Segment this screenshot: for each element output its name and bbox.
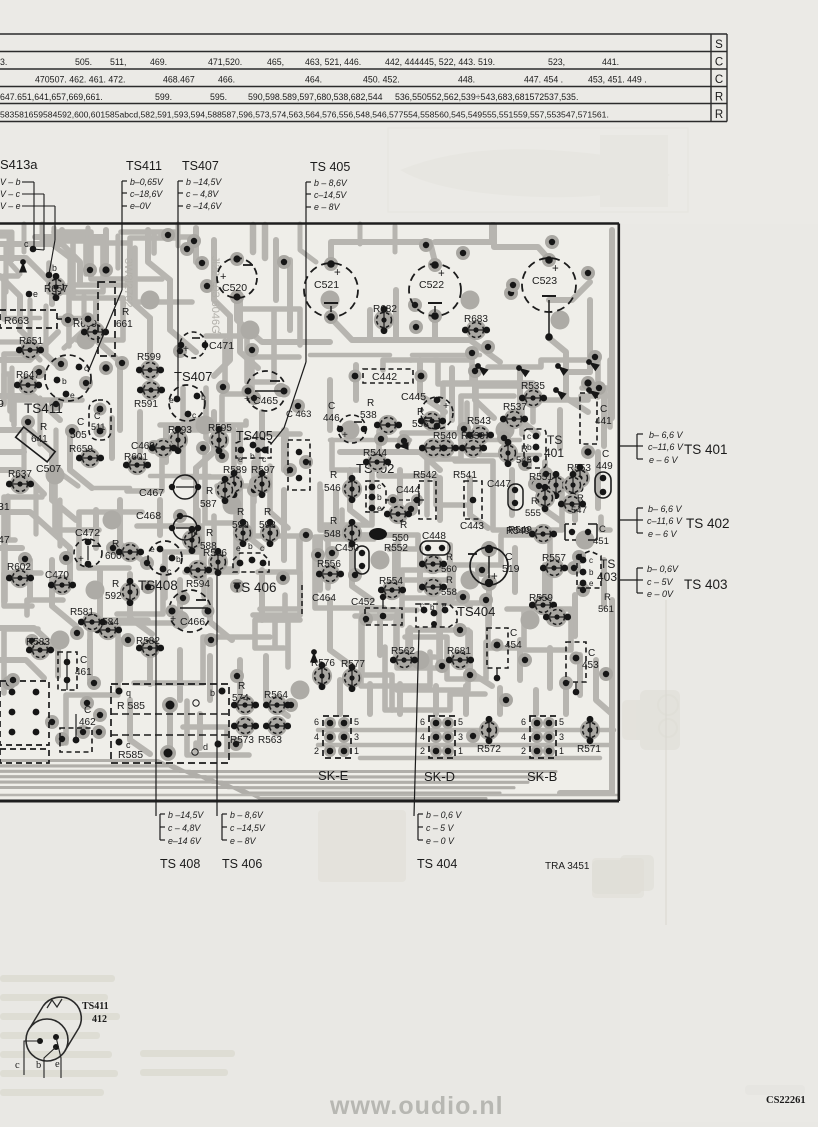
svg-text:2: 2 — [314, 746, 319, 756]
resistor R549 trim — [508, 524, 557, 544]
transistor TS404 body — [416, 601, 457, 627]
svg-text:e: e — [377, 503, 382, 513]
svg-text:546: 546 — [324, 483, 341, 494]
svg-text:R582: R582 — [136, 636, 160, 647]
svg-text:+: + — [342, 430, 348, 441]
svg-text:R562: R562 — [391, 646, 415, 657]
svg-text:TS407: TS407 — [182, 159, 219, 173]
svg-text:6: 6 — [314, 717, 319, 727]
resistor R584 — [94, 617, 122, 640]
svg-text:C: C — [715, 57, 723, 69]
svg-text:b: b — [52, 263, 57, 273]
svg-text:451: 451 — [593, 536, 609, 547]
svg-text:548: 548 — [324, 529, 341, 540]
svg-text:e: e — [55, 1059, 60, 1070]
resistor R600 body — [116, 542, 144, 562]
svg-text:R: R — [122, 307, 129, 318]
svg-text:1: 1 — [354, 746, 359, 756]
svg-text:536: 536 — [412, 419, 429, 430]
svg-text:e – 8V: e – 8V — [230, 836, 257, 846]
transistor TS405 body — [236, 438, 271, 464]
svg-text:R602: R602 — [7, 562, 31, 573]
svg-text:R599: R599 — [137, 352, 161, 363]
svg-text:b: b — [176, 554, 181, 564]
svg-text:536,550552,562,539÷543,683,681: 536,550552,562,539÷543,683,681572537,535… — [395, 92, 578, 102]
svg-text:c – 5 V: c – 5 V — [426, 823, 455, 833]
svg-text:b – 8,6V: b – 8,6V — [230, 810, 264, 820]
svg-text:+: + — [78, 554, 84, 565]
svg-text:C: C — [588, 648, 595, 659]
transistor TS411 callout wire — [88, 206, 122, 372]
capacitor C446 label and body — [323, 401, 367, 443]
svg-text:e: e — [169, 395, 174, 405]
svg-text:+: + — [334, 267, 341, 279]
potentiometer R585 box — [111, 684, 229, 763]
svg-text:b: b — [377, 492, 382, 502]
resistor R551 b — [563, 471, 583, 499]
svg-text:442, 444445, 522, 443. 519.: 442, 444445, 522, 443. 519. — [385, 57, 495, 67]
svg-text:C470: C470 — [45, 570, 69, 581]
capacitor C453 body and label — [566, 642, 599, 695]
svg-text:e: e — [70, 390, 75, 400]
pcb outline border right — [617, 224, 620, 802]
svg-text:R551: R551 — [529, 472, 553, 483]
resistor R601 — [123, 452, 151, 475]
svg-text:+: + — [438, 268, 445, 280]
resistor R582 — [136, 636, 164, 658]
svg-text:454: 454 — [505, 640, 522, 651]
svg-text:R583: R583 — [26, 637, 50, 648]
svg-text:+: + — [491, 571, 498, 583]
svg-text:465,: 465, — [267, 57, 284, 67]
svg-text:545: 545 — [516, 455, 532, 466]
svg-text:R: R — [577, 493, 584, 504]
capacitor C468 label and body — [136, 510, 201, 540]
transistor TS402 body — [366, 481, 386, 513]
svg-text:e–14 6V: e–14 6V — [168, 836, 202, 846]
svg-text:TS404: TS404 — [457, 604, 495, 619]
capacitor C469 body — [131, 438, 177, 458]
svg-text:3: 3 — [559, 732, 564, 742]
capacitor C447 label and body — [487, 479, 523, 510]
svg-text:R571: R571 — [577, 744, 601, 755]
capacitor C448 label and body — [420, 531, 450, 555]
svg-text:C: C — [328, 401, 335, 412]
svg-text:b– 0,6V: b– 0,6V — [647, 564, 679, 574]
connector SK-E body — [314, 716, 359, 758]
resistor R557 — [540, 553, 568, 578]
svg-text:468.467: 468.467 — [163, 75, 195, 85]
svg-text:SK-D: SK-D — [424, 769, 455, 784]
resistor R588 body — [182, 526, 202, 554]
svg-text:C467: C467 — [139, 487, 164, 499]
capacitor C444 label and body — [385, 485, 425, 506]
svg-text:448.: 448. — [458, 75, 475, 85]
svg-text:R: R — [417, 407, 424, 418]
svg-text:598: 598 — [259, 520, 276, 531]
table row C capacitors 2 — [35, 75, 647, 85]
svg-text:b: b — [248, 541, 253, 551]
transistor TS407 body — [169, 385, 206, 421]
svg-text:453, 451. 449 .: 453, 451. 449 . — [588, 75, 647, 85]
svg-text:9: 9 — [0, 398, 4, 410]
svg-text:C: C — [600, 404, 607, 415]
resistor R576 — [311, 658, 335, 690]
resistor R587 body — [215, 476, 235, 504]
svg-text:TS 401: TS 401 — [684, 442, 728, 457]
resistor R581 — [70, 607, 106, 632]
resistor R564 — [263, 690, 291, 715]
transistor TS401 callout — [620, 430, 684, 465]
svg-text:TS413a: TS413a — [0, 157, 38, 172]
svg-text:TRA 3451: TRA 3451 — [545, 861, 590, 872]
capacitor C466 body and label — [166, 590, 215, 632]
resistor R572 trim — [479, 716, 499, 744]
svg-text:b: b — [430, 603, 435, 612]
svg-text:R: R — [446, 552, 453, 563]
svg-text:b: b — [250, 451, 255, 461]
svg-text:+: + — [183, 344, 189, 355]
svg-text:600: 600 — [105, 551, 122, 562]
svg-text:c: c — [589, 556, 593, 565]
svg-text:C469: C469 — [131, 441, 155, 452]
svg-text:e – 6 V: e – 6 V — [649, 455, 679, 465]
svg-text:C521: C521 — [314, 279, 339, 291]
resistor R542 body and label — [413, 470, 437, 519]
svg-text:R: R — [521, 444, 528, 455]
svg-text:R542: R542 — [413, 470, 437, 481]
svg-text:R657: R657 — [44, 284, 68, 295]
resistor R571 trim — [580, 716, 600, 744]
resistor R592 body — [120, 578, 140, 606]
svg-text:R591: R591 — [134, 399, 158, 410]
svg-text:587: 587 — [200, 499, 217, 510]
capacitor C461 body and label — [58, 652, 92, 690]
svg-text:b –14,5V: b –14,5V — [168, 810, 204, 820]
resistor R657 — [44, 273, 68, 301]
svg-text:C442: C442 — [372, 371, 397, 383]
svg-text:R: R — [238, 681, 245, 692]
transistor TS406 bottom callout — [217, 576, 266, 846]
svg-text:TS 404: TS 404 — [417, 857, 457, 871]
capacitor C454 body and label — [487, 628, 522, 681]
svg-text:R556: R556 — [317, 559, 341, 570]
svg-text:523,: 523, — [548, 57, 565, 67]
svg-text:C: C — [84, 705, 91, 716]
svg-text:47: 47 — [0, 534, 10, 546]
resistor R596 — [203, 548, 228, 576]
svg-text:e–0V: e–0V — [130, 201, 152, 211]
svg-text:V – e: V – e — [0, 201, 21, 211]
capacitor C464 label and body — [302, 585, 336, 615]
svg-text:441: 441 — [595, 416, 612, 427]
resistor R577 — [341, 659, 365, 692]
svg-text:TS 408: TS 408 — [160, 857, 200, 871]
pcb outline border top — [0, 222, 619, 225]
resistor R541 body and label — [453, 470, 482, 519]
resistor R562 — [390, 646, 418, 670]
pcb outline border bottom — [0, 800, 619, 803]
svg-text:469.: 469. — [150, 57, 167, 67]
resistor R543 — [466, 416, 494, 445]
transistor TS408 body — [148, 541, 182, 576]
svg-text:TS: TS — [547, 433, 562, 447]
transistor package drawing TS411/412 — [26, 997, 81, 1061]
svg-text:e: e — [33, 289, 38, 299]
capacitor C445 label and body — [401, 391, 453, 429]
resistor R589 — [223, 465, 247, 498]
svg-text:511,: 511, — [110, 57, 126, 67]
svg-text:R: R — [112, 539, 119, 550]
svg-text:e: e — [150, 544, 155, 554]
svg-text:R601: R601 — [124, 452, 148, 463]
ghost bleed-through top-right — [388, 128, 688, 212]
svg-text:R659: R659 — [69, 444, 93, 455]
svg-text:462: 462 — [79, 717, 96, 728]
svg-text:C: C — [80, 655, 87, 666]
svg-text:R593: R593 — [168, 425, 192, 436]
svg-text:R651: R651 — [19, 336, 43, 347]
svg-text:c –14,5V: c –14,5V — [230, 823, 266, 833]
svg-text:661: 661 — [116, 319, 133, 330]
resistor R647 — [14, 370, 42, 395]
resistor R574 — [231, 695, 259, 715]
svg-text:453: 453 — [582, 660, 599, 671]
transistor TS407 callout wire — [177, 206, 179, 396]
svg-text:R594: R594 — [186, 579, 210, 590]
ghost text lines bottom-left — [0, 975, 235, 1096]
connector SK-D body — [420, 716, 463, 758]
svg-text:C: C — [602, 449, 609, 460]
svg-text:590: 590 — [232, 520, 249, 531]
resistor R651 — [16, 336, 44, 360]
resistor R663 label and body — [0, 310, 95, 328]
svg-text:595.: 595. — [210, 92, 227, 102]
svg-text:TS411: TS411 — [82, 1001, 109, 1012]
svg-text:C522: C522 — [419, 279, 444, 291]
svg-text:R683: R683 — [464, 314, 488, 325]
svg-text:R 585: R 585 — [117, 700, 145, 712]
pcb interior background — [0, 224, 619, 801]
svg-text:511: 511 — [91, 422, 105, 432]
svg-text:CS22261: CS22261 — [766, 1095, 806, 1106]
resistor R538 body — [374, 415, 402, 435]
svg-text:1: 1 — [458, 746, 463, 756]
svg-text:446: 446 — [323, 413, 340, 424]
capacitor C522 — [409, 258, 461, 323]
resistor R602 — [6, 562, 34, 588]
svg-text:b: b — [201, 392, 206, 402]
svg-text:447. 454 .: 447. 454 . — [524, 75, 563, 85]
svg-text:466.: 466. — [218, 75, 235, 85]
resistor R558 trim — [419, 577, 447, 597]
svg-text:TS407: TS407 — [174, 369, 212, 384]
svg-text:R: R — [40, 422, 47, 433]
svg-text:b– 6,6 V: b– 6,6 V — [649, 430, 684, 440]
capacitor C472 body — [74, 527, 102, 567]
svg-text:C468: C468 — [136, 510, 161, 522]
svg-text:403: 403 — [597, 570, 617, 584]
svg-text:V – c: V – c — [0, 189, 21, 199]
svg-text:3W8l2762: 3W8l2762 — [122, 258, 134, 308]
svg-text:e: e — [589, 579, 594, 588]
svg-text:C464: C464 — [312, 593, 336, 604]
svg-text:b: b — [62, 376, 67, 386]
resistor R598 — [260, 519, 280, 547]
svg-text:R549: R549 — [506, 526, 530, 537]
pcb filler traces — [0, 224, 618, 799]
svg-text:C: C — [505, 551, 513, 563]
svg-text:b: b — [36, 1060, 41, 1071]
resistor R599 — [136, 352, 164, 380]
svg-text:c: c — [24, 239, 29, 249]
svg-text:R: R — [715, 109, 723, 121]
svg-text:b: b — [210, 688, 215, 698]
svg-text:2: 2 — [420, 746, 425, 756]
svg-text:R595: R595 — [208, 423, 232, 434]
capacitor C467 label and body — [139, 475, 201, 499]
svg-text:C: C — [599, 524, 606, 535]
svg-text:e –14,6V: e –14,6V — [186, 201, 222, 211]
left edge connector blocks — [0, 681, 49, 763]
svg-text:C523: C523 — [532, 275, 557, 287]
svg-text:C520: C520 — [222, 282, 247, 294]
svg-text:R541: R541 — [453, 470, 477, 481]
svg-text:e: e — [442, 601, 447, 610]
resistor R535 — [519, 381, 547, 408]
svg-text:R: R — [531, 496, 538, 507]
svg-text:463, 521, 446.: 463, 521, 446. — [305, 57, 361, 67]
svg-text:R597: R597 — [251, 465, 275, 476]
resistor R560 trim — [419, 554, 447, 574]
svg-text:R: R — [715, 92, 723, 104]
resistor R593 — [168, 425, 192, 454]
svg-text:q: q — [126, 688, 131, 698]
svg-text:C445: C445 — [401, 391, 426, 403]
resistor R536 — [418, 411, 446, 431]
capacitor C465 body and label — [242, 371, 291, 411]
svg-text:+: + — [552, 263, 559, 275]
svg-text:R585: R585 — [118, 749, 143, 761]
svg-text:R637: R637 — [8, 469, 32, 480]
svg-text:401: 401 — [544, 446, 564, 460]
transistor TS404 bottom callout — [414, 630, 462, 846]
capacitor C521 — [304, 257, 358, 324]
svg-text:592: 592 — [105, 591, 122, 602]
resistor R548 — [342, 519, 362, 547]
svg-text:4: 4 — [521, 732, 526, 742]
svg-text:R: R — [237, 507, 244, 518]
transistor TS411 voltage list — [122, 177, 164, 211]
svg-text:C471: C471 — [209, 340, 234, 352]
svg-text:31: 31 — [0, 501, 10, 513]
resistor R682 — [373, 304, 397, 334]
svg-text:519: 519 — [502, 563, 520, 575]
capacitor C441 body and label — [580, 376, 612, 459]
svg-text:b – 8,6V: b – 8,6V — [314, 178, 348, 188]
svg-text:R552: R552 — [384, 543, 408, 554]
capacitor C462 label and body — [60, 705, 96, 752]
transistor TS407 voltage list — [178, 177, 222, 211]
ghost bleed-through right column — [592, 690, 680, 894]
svg-text:c – 5V: c – 5V — [647, 577, 674, 587]
svg-text:505: 505 — [70, 430, 87, 441]
capacitor C523 — [522, 253, 576, 341]
svg-text:505.: 505. — [75, 57, 92, 67]
transistor TS403 body — [577, 551, 601, 588]
resistor R542 trim — [419, 438, 447, 458]
svg-text:R: R — [367, 398, 374, 409]
svg-text:558: 558 — [441, 587, 457, 598]
transistor TS413a callout wires — [24, 182, 57, 299]
scattered solder pads — [2, 228, 613, 751]
svg-text:TS411: TS411 — [24, 401, 63, 416]
svg-text:+: + — [170, 613, 176, 625]
svg-text:C507: C507 — [36, 463, 61, 475]
svg-text:R647: R647 — [16, 370, 40, 381]
svg-text:www.oudio.nl: www.oudio.nl — [329, 1092, 504, 1120]
svg-text:R539: R539 — [461, 431, 485, 442]
transistor TS405 voltage list — [306, 178, 348, 212]
svg-text:R: R — [264, 507, 271, 518]
svg-text:560: 560 — [441, 564, 457, 575]
resistor R637 — [6, 469, 34, 494]
svg-text:R544: R544 — [363, 448, 387, 459]
resistor R546 — [342, 475, 362, 503]
capacitor C471 body and label — [178, 332, 235, 358]
svg-text:TS: TS — [600, 557, 615, 571]
svg-text:555: 555 — [525, 508, 541, 519]
svg-text:561: 561 — [598, 604, 614, 615]
svg-text:e – 0V: e – 0V — [647, 589, 674, 599]
resistor R561 trim — [543, 607, 571, 627]
ghost machine drawing bottom-center — [318, 810, 805, 1095]
svg-text:e – 8V: e – 8V — [314, 202, 341, 212]
svg-text:470507. 462. 461. 472.: 470507. 462. 461. 472. — [35, 75, 126, 85]
svg-text:c – 4,8V: c – 4,8V — [168, 823, 201, 833]
svg-text:R681: R681 — [447, 646, 471, 657]
svg-text:TS 405: TS 405 — [310, 160, 350, 174]
capacitor C452 label and body — [351, 594, 402, 625]
component reference table — [0, 34, 727, 122]
svg-text:R682: R682 — [373, 304, 397, 315]
svg-text:e – 6 V: e – 6 V — [648, 529, 678, 539]
resistor R669 — [73, 319, 109, 342]
resistor R681 — [446, 646, 474, 670]
svg-text:b –14,5V: b –14,5V — [186, 177, 222, 187]
svg-text:b– 6,6 V: b– 6,6 V — [648, 504, 683, 514]
svg-text:3: 3 — [354, 732, 359, 742]
svg-text:S: S — [715, 39, 723, 51]
svg-text:R: R — [206, 528, 213, 539]
resistor R539 — [459, 431, 487, 458]
svg-text:3: 3 — [458, 732, 463, 742]
transistor TS406 body — [233, 541, 269, 572]
transistor TS411 body — [45, 355, 91, 401]
resistor R544 — [363, 448, 391, 472]
svg-text:R581: R581 — [70, 607, 94, 618]
svg-text:471,520.: 471,520. — [208, 57, 242, 67]
svg-text:5: 5 — [458, 717, 463, 727]
capacitor C449 label and body — [595, 449, 613, 498]
resistor R540 — [431, 431, 459, 458]
svg-text:C: C — [94, 411, 101, 421]
svg-text:SK-E: SK-E — [318, 768, 349, 783]
svg-text:R554: R554 — [379, 576, 403, 587]
svg-text:c–11,6 V: c–11,6 V — [647, 516, 683, 526]
table row R resistors 1 — [0, 92, 578, 102]
transistor TS402 callout — [620, 504, 683, 539]
